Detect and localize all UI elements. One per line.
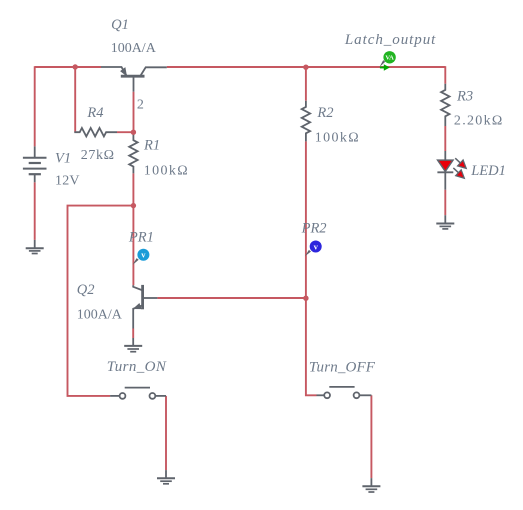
junction node: Q1 base / R4 / R1 xyxy=(131,130,136,135)
transistor Q1 xyxy=(101,67,167,92)
ground (Q2 emitter) xyxy=(124,338,142,352)
probe Latch_output xyxy=(380,51,396,71)
wire: R3 corner drop from top rail xyxy=(444,66,446,84)
wire: collector node left and down to Turn_ON xyxy=(68,206,134,396)
svg-text:R2: R2 xyxy=(316,105,333,121)
wire: R2 bottom down to Turn_OFF corner xyxy=(306,141,317,395)
wire: Q2 emitter red segment to ground xyxy=(132,329,134,339)
resistor R1 xyxy=(129,133,137,173)
ground (Turn_ON) xyxy=(157,470,175,484)
ground (V1) xyxy=(26,240,44,254)
svg-text:100A/A: 100A/A xyxy=(111,41,157,56)
svg-text:R1: R1 xyxy=(143,138,160,154)
wire: V1 minus down to ground xyxy=(34,182,36,240)
svg-text:12V: 12V xyxy=(55,173,80,188)
switch Turn_OFF xyxy=(317,387,372,398)
wire: top rail Q1 collector to R3 corner xyxy=(167,66,446,68)
wire: R1 bottom to collector node xyxy=(132,173,134,205)
svg-text:R3: R3 xyxy=(456,89,473,105)
svg-text:100kΩ: 100kΩ xyxy=(144,163,189,178)
svg-text:Turn_ON: Turn_ON xyxy=(107,359,167,375)
svg-text:V1: V1 xyxy=(55,150,71,166)
junction node: top rail / R4 branch xyxy=(73,64,78,69)
svg-text:Q2: Q2 xyxy=(77,282,95,298)
wire: Turn_ON right lead down to ground xyxy=(165,396,167,470)
svg-text:VA: VA xyxy=(385,55,394,62)
svg-text:R4: R4 xyxy=(86,105,103,121)
svg-text:100kΩ: 100kΩ xyxy=(315,130,360,145)
svg-text:Q1: Q1 xyxy=(111,17,129,33)
wire: R2 top drop from top rail xyxy=(305,67,307,101)
svg-text:v: v xyxy=(141,250,146,260)
svg-text:2.20kΩ: 2.20kΩ xyxy=(454,114,504,129)
wire: R4 right lead to base node xyxy=(117,131,133,133)
junction node: top rail / R2 branch xyxy=(303,65,308,70)
LED LED1 xyxy=(437,151,469,190)
wire: Q1 base down to base node xyxy=(133,92,135,133)
wire: R4 branch drop from top rail xyxy=(74,67,76,132)
wire: Q2 base to Turn_OFF node xyxy=(157,297,306,299)
transistor Q2 xyxy=(133,285,157,329)
svg-text:Latch_output: Latch_output xyxy=(344,32,436,48)
svg-text:PR2: PR2 xyxy=(301,220,327,236)
svg-text:v: v xyxy=(314,241,319,251)
resistor R4 xyxy=(75,128,117,136)
svg-text:2: 2 xyxy=(137,98,144,113)
junction node: Q2 base / R2 bottom / Turn_OFF branch xyxy=(303,296,308,301)
svg-text:PR1: PR1 xyxy=(128,229,154,245)
resistor R2 xyxy=(302,101,310,142)
wire: collector node down to Q2 collector xyxy=(132,206,134,286)
wire: LED1 cathode down to ground xyxy=(444,190,446,216)
probe PR1 xyxy=(133,249,150,265)
resistor R3 xyxy=(441,84,449,126)
junction node: R1 bottom / Q2 collector / Turn_ON branch xyxy=(131,203,136,208)
switch Turn_ON xyxy=(110,388,166,399)
battery V1 xyxy=(23,146,47,182)
wire: top rail V1+ to Q1 emitter xyxy=(35,66,101,68)
svg-text:100A/A: 100A/A xyxy=(77,307,123,322)
svg-text:Turn_OFF: Turn_OFF xyxy=(309,360,376,376)
wire: left vertical from top rail down to V1 xyxy=(34,66,36,146)
svg-text:27kΩ: 27kΩ xyxy=(81,148,115,163)
svg-text:LED1: LED1 xyxy=(470,163,506,179)
ground (Turn_OFF) xyxy=(362,478,380,492)
ground (LED1) xyxy=(436,215,454,229)
wire: R3 bottom to LED1 anode xyxy=(444,126,446,151)
probe PR2 xyxy=(305,241,322,257)
wire: Turn_OFF right lead down to ground xyxy=(370,395,372,478)
